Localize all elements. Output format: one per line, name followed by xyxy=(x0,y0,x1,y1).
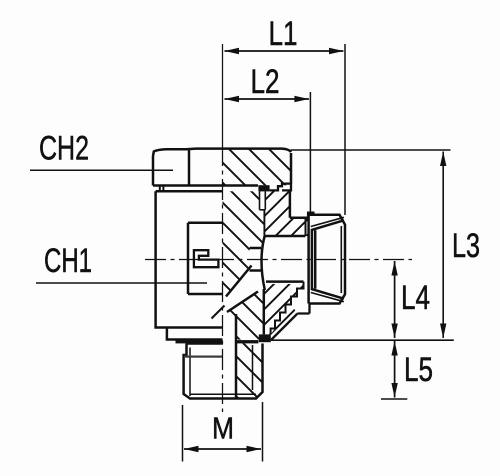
dimension L1 xyxy=(225,44,346,215)
svg-text:L3: L3 xyxy=(452,227,480,265)
hatch flange step right xyxy=(271,305,298,340)
dimension L3 xyxy=(291,150,451,338)
body upper right edge xyxy=(290,190,315,217)
flange bottom edge and L3 extension xyxy=(271,339,454,341)
port bore outline xyxy=(250,236,306,291)
hatch body upper right xyxy=(265,191,308,236)
CH1 hex rectangle xyxy=(188,223,223,294)
seal top black xyxy=(258,185,269,191)
svg-text:L1: L1 xyxy=(269,15,298,53)
hatch nut CH2 section xyxy=(223,150,292,186)
swivel nut right xyxy=(309,215,345,304)
horizontal centerline xyxy=(145,259,412,261)
port thread steps xyxy=(271,282,310,340)
body outline left block xyxy=(156,191,223,339)
washer under nut xyxy=(156,184,291,192)
seal bottom black xyxy=(259,334,271,342)
stud outline xyxy=(184,344,263,399)
hatch column upper xyxy=(223,191,265,296)
port face lines xyxy=(305,218,307,236)
dimension L5 xyxy=(381,341,407,399)
svg-text:L4: L4 xyxy=(401,279,430,317)
vertical centerline xyxy=(222,44,224,145)
dimension M xyxy=(183,402,263,462)
washer bottom thick xyxy=(176,340,223,344)
svg-text:CH1: CH1 xyxy=(44,242,92,280)
hatch column lower wedge xyxy=(227,292,265,340)
passage angled lines xyxy=(212,266,264,399)
dimension L2 xyxy=(225,92,311,214)
seal symbol glyph xyxy=(194,250,219,267)
thread relief band xyxy=(184,356,223,358)
svg-text:M: M xyxy=(212,411,234,446)
hatch body lower right xyxy=(236,284,304,334)
hatch stud right half xyxy=(236,343,263,398)
dimension L4 xyxy=(394,261,396,338)
svg-text:L2: L2 xyxy=(251,63,280,101)
svg-text:L5: L5 xyxy=(404,351,433,389)
svg-text:CH2: CH2 xyxy=(39,129,89,167)
top locknut CH2 xyxy=(153,149,291,186)
slot below seal xyxy=(260,191,266,209)
small bore white notch xyxy=(250,249,262,270)
